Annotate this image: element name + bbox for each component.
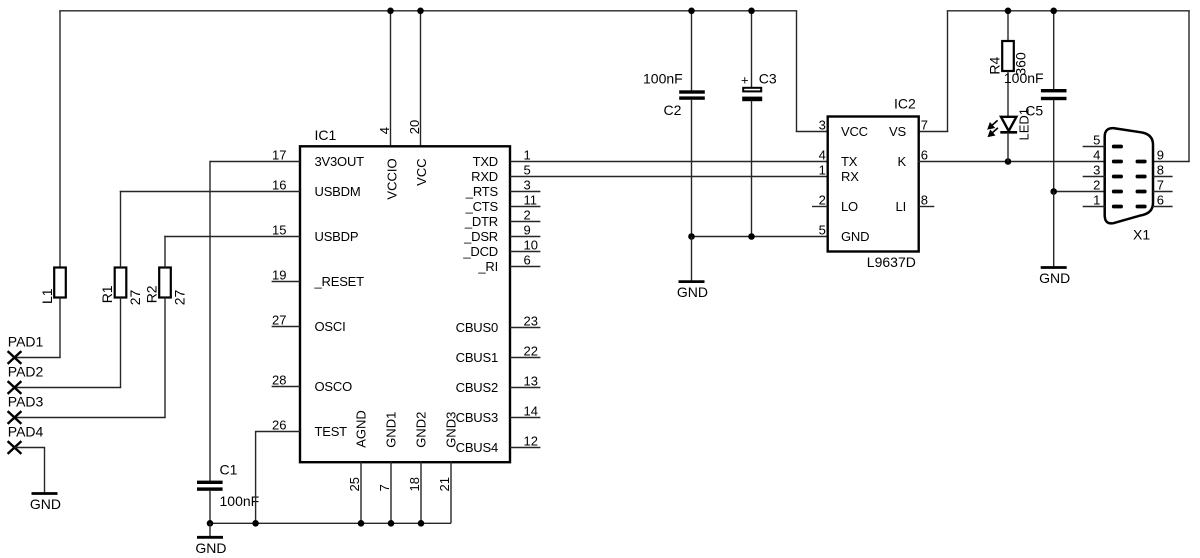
svg-text:X1: X1 [1133, 226, 1150, 242]
IC1 pin 3 _RTS stub [510, 191, 540, 193]
wire VS rail drop to R4 [1007, 11, 1009, 42]
svg-text:6: 6 [1157, 193, 1164, 208]
svg-text:13: 13 [524, 374, 538, 389]
diode LED1 cathode bar [1000, 131, 1017, 134]
wire R1 bottom to PAD2 [120, 298, 122, 388]
wire rail drop to IC1 VCCIO pin 4 [390, 11, 392, 147]
X1 pin 3 dash [1112, 175, 1123, 179]
junction ground rail/AGND [358, 520, 365, 527]
ground below C5 [1039, 268, 1070, 287]
wire IC2 K pin 6 to X1 pin 4 [918, 161, 1105, 163]
svg-text:PAD1: PAD1 [8, 334, 44, 350]
svg-text:5: 5 [819, 223, 826, 238]
svg-text:R2: R2 [144, 285, 160, 303]
wire C2 bottom to ground wire [691, 99, 693, 237]
svg-text:IC2: IC2 [894, 96, 916, 112]
svg-text:23: 23 [524, 314, 538, 329]
capacitor C3 top plate [743, 88, 761, 92]
X1 pin 3 stub [1083, 176, 1105, 178]
svg-text:PAD2: PAD2 [8, 364, 44, 380]
wire L1 bottom to PAD1 [59, 298, 61, 358]
svg-text:3: 3 [524, 178, 531, 193]
wire X1 pin 2 to C5/ground [1054, 191, 1105, 193]
svg-text:CBUS2: CBUS2 [456, 380, 498, 395]
junction ground rail/GND2 [418, 520, 425, 527]
svg-text:10: 10 [524, 238, 538, 253]
IC1 pin 6 _RI stub [510, 266, 540, 268]
wire LED1 cathode to K wire [1007, 132, 1009, 161]
svg-text:21: 21 [437, 477, 452, 491]
IC1 pin 9 _DSR stub [510, 236, 540, 238]
svg-text:2: 2 [1093, 178, 1100, 193]
IC1 pin 22 CBUS1 stub [510, 357, 540, 359]
svg-text:CBUS1: CBUS1 [456, 350, 498, 365]
op IC2 L9637D box [828, 117, 919, 252]
svg-text:RX: RX [841, 169, 859, 184]
resistor R4 body [1002, 41, 1014, 71]
svg-text:4: 4 [1093, 148, 1100, 163]
ground below PAD4 [30, 447, 61, 512]
junction rail/VCCIO [387, 8, 394, 15]
svg-text:8: 8 [921, 193, 928, 208]
svg-text:25: 25 [347, 477, 362, 491]
svg-text:3: 3 [1093, 163, 1100, 178]
capacitor C3 bottom plate [742, 97, 762, 102]
svg-text:USBDP: USBDP [315, 229, 359, 244]
wire rail drop to L1 [59, 11, 61, 268]
node PAD3 X mark [8, 411, 22, 424]
X1 pin 5 stub [1083, 146, 1105, 148]
node PAD1 X mark [8, 351, 22, 364]
svg-text:100nF: 100nF [643, 70, 683, 86]
op IC1 FT232R box [300, 146, 510, 462]
svg-text:L9637D: L9637D [867, 254, 916, 270]
svg-text:TEST: TEST [315, 424, 348, 439]
junction ground rail/C1 [207, 520, 214, 527]
svg-text:VCCIO: VCCIO [385, 158, 400, 199]
svg-text:1: 1 [1093, 193, 1100, 208]
capacitor C1 plates [197, 481, 223, 484]
svg-text:6: 6 [921, 148, 928, 163]
wire VS rail drop to IC2 VS pin 7 [947, 11, 949, 132]
svg-text:GND: GND [30, 496, 61, 512]
wire VS rail drop to C5 [1053, 11, 1055, 90]
IC1 pin 7 GND1 stub [390, 462, 392, 524]
svg-text:CBUS3: CBUS3 [456, 410, 498, 425]
svg-text:GND2: GND2 [414, 412, 429, 448]
svg-text:TXD: TXD [473, 154, 498, 169]
junction rail/C3 [748, 8, 755, 15]
IC1 pin 28 OSCO stub [272, 386, 300, 388]
ground below C2 [677, 237, 708, 301]
svg-text:IC1: IC1 [315, 127, 337, 143]
svg-text:17: 17 [272, 148, 286, 163]
svg-text:7: 7 [921, 118, 928, 133]
resistor R1 body [115, 268, 127, 298]
svg-text:28: 28 [272, 373, 286, 388]
junction C5/pin2 wire [1050, 188, 1057, 195]
inductor L1 body [54, 268, 66, 298]
svg-text:_RI: _RI [477, 259, 498, 274]
svg-text:27: 27 [127, 290, 143, 306]
svg-text:2: 2 [524, 208, 531, 223]
svg-text:VCC: VCC [414, 158, 429, 185]
svg-text:GND: GND [1039, 270, 1070, 286]
IC1 pin 13 CBUS2 stub [510, 387, 540, 389]
IC1 pin 2 _DTR stub [510, 221, 540, 223]
svg-text:12: 12 [524, 434, 538, 449]
svg-text:CBUS0: CBUS0 [456, 320, 498, 335]
svg-text:OSCO: OSCO [315, 379, 353, 394]
svg-text:RXD: RXD [471, 169, 498, 184]
wire rail drop to IC1 VCC pin 20 [420, 11, 422, 147]
IC1 pin 18 GND2 stub [420, 462, 422, 524]
IC1 pin 10 _DCD stub [510, 251, 540, 253]
connector X1 body [1105, 128, 1153, 223]
svg-text:PAD4: PAD4 [8, 424, 44, 440]
svg-text:LI: LI [896, 199, 906, 214]
ground below C1 [195, 523, 226, 556]
wire IC1 RXD to IC2 RX [510, 176, 828, 178]
svg-text:USBDM: USBDM [315, 184, 361, 199]
node PAD2 X mark [8, 381, 22, 394]
svg-text:_DTR: _DTR [464, 214, 498, 229]
wire C1 bottom to ground rail [209, 491, 211, 524]
svg-text:3: 3 [819, 118, 826, 133]
svg-text:C2: C2 [664, 102, 682, 118]
wire VS rail drop to X1 pin 9 [1188, 11, 1190, 162]
X1 pin 1 dash [1112, 205, 1123, 209]
wire R4 bottom to LED1 [1007, 71, 1009, 117]
svg-text:GND: GND [195, 540, 226, 556]
svg-text:C5: C5 [1025, 102, 1043, 118]
X1 pin 5 dash [1112, 145, 1123, 149]
resistor R2 body [159, 268, 171, 298]
svg-text:K: K [898, 154, 907, 169]
junction rail/R4 [1005, 8, 1012, 15]
svg-text:TX: TX [841, 154, 858, 169]
junction ground wire/C2 [688, 233, 695, 240]
svg-text:OSCI: OSCI [315, 319, 346, 334]
wire TEST pin drop [256, 431, 300, 433]
svg-text:27: 27 [172, 290, 188, 306]
svg-text:16: 16 [272, 178, 286, 193]
wire rail drop to C2 [691, 11, 693, 91]
svg-text:GND: GND [677, 284, 708, 300]
wire C5 junction down to ground [1053, 192, 1055, 268]
X1 pin 6 stub [1153, 206, 1173, 208]
X1 pin 1 stub [1083, 206, 1105, 208]
svg-text:18: 18 [407, 477, 422, 491]
X1 pin 8 stub [1153, 176, 1173, 178]
junction rail/C2 [688, 8, 695, 15]
wire C5 bottom through K wire to X1 pin 2 row [1053, 99, 1055, 191]
svg-text:1: 1 [819, 163, 826, 178]
svg-text:6: 6 [524, 253, 531, 268]
IC1 pin 19 _RESET stub [272, 281, 300, 283]
svg-text:CBUS4: CBUS4 [456, 440, 498, 455]
svg-text:100nF: 100nF [1004, 70, 1044, 86]
IC2 pin 8 LI [919, 206, 935, 208]
svg-text:7: 7 [1157, 178, 1164, 193]
svg-text:_RESET: _RESET [314, 274, 365, 289]
wire bottom ground rail [210, 522, 451, 524]
svg-text:_RTS: _RTS [465, 184, 499, 199]
wire C3 bottom to ground wire [751, 101, 753, 237]
svg-text:5: 5 [1093, 133, 1100, 148]
IC1 pin 27 OSCI stub [272, 326, 300, 328]
svg-text:_DCD: _DCD [462, 244, 498, 259]
junction ground rail/TEST [252, 520, 259, 527]
wire R2 top to IC1 USBDP [164, 236, 166, 268]
svg-text:7: 7 [377, 484, 392, 491]
svg-text:_DSR: _DSR [463, 229, 498, 244]
diode LED1 emission arrows [988, 120, 998, 136]
junction rail/C5 [1050, 8, 1057, 15]
svg-text:9: 9 [524, 223, 531, 238]
X1 pin 6 dash [1136, 205, 1147, 209]
svg-text:L1: L1 [39, 288, 55, 304]
junction rail/VCC [417, 8, 424, 15]
svg-text:C3: C3 [759, 70, 777, 86]
svg-text:R1: R1 [99, 285, 115, 303]
svg-text:22: 22 [524, 344, 538, 359]
IC1 pin 11 _CTS stub [510, 206, 540, 208]
svg-text:20: 20 [407, 120, 422, 134]
svg-text:8: 8 [1157, 163, 1164, 178]
svg-text:LO: LO [841, 199, 858, 214]
wire top power rail left segment [59, 10, 797, 12]
wire IC1 3V3OUT to C1 [210, 161, 300, 163]
svg-text:5: 5 [524, 163, 531, 178]
svg-text:1: 1 [524, 148, 531, 163]
diode LED1 triangle [1001, 117, 1016, 131]
svg-text:+: + [741, 73, 749, 88]
wire C2/C3 ground to IC2 GND pin 5 [692, 236, 829, 238]
svg-text:100nF: 100nF [220, 493, 260, 509]
X1 pin 7 dash [1136, 190, 1147, 194]
svg-text:GND1: GND1 [384, 412, 399, 448]
X1 pin 4 dash [1112, 160, 1123, 164]
svg-text:11: 11 [524, 193, 538, 208]
IC1 pin 12 CBUS4 stub [510, 447, 540, 449]
X1 pin 8 dash [1136, 175, 1147, 179]
svg-text:_CTS: _CTS [465, 199, 499, 214]
svg-text:VS: VS [889, 124, 906, 139]
svg-text:GND3: GND3 [444, 412, 459, 448]
junction ground wire/C3 [748, 233, 755, 240]
svg-text:15: 15 [272, 223, 286, 238]
svg-text:VCC: VCC [841, 124, 868, 139]
junction K wire / LED1 [1005, 158, 1012, 165]
capacitor C5 plates [1041, 89, 1067, 92]
wire rail drop to C3 [751, 11, 753, 89]
svg-text:27: 27 [272, 313, 286, 328]
X1 pin 9 dash [1136, 160, 1147, 164]
wire R1 top to IC1 USBDM [120, 191, 122, 268]
svg-text:4: 4 [377, 127, 392, 134]
svg-text:AGND: AGND [354, 410, 369, 448]
IC2 pin 2 LO [812, 206, 828, 208]
wire rail drop to IC2 VCC pin 3 [796, 11, 798, 132]
IC1 pin 25 AGND stub [360, 462, 362, 524]
svg-text:9: 9 [1157, 148, 1164, 163]
wire top VS rail right segment [947, 10, 1190, 12]
X1 pin 7 stub [1153, 191, 1173, 193]
capacitor C2 plates [679, 90, 705, 93]
IC1 pin 14 CBUS3 stub [510, 417, 540, 419]
wire PAD4 to ground [15, 447, 45, 449]
svg-text:14: 14 [524, 404, 538, 419]
wire R2 bottom to PAD3 [164, 298, 166, 418]
IC1 pin 23 CBUS0 stub [510, 327, 540, 329]
svg-text:19: 19 [272, 268, 286, 283]
svg-text:4: 4 [819, 148, 826, 163]
junction ground rail/GND1 [388, 520, 395, 527]
X1 pin 2 dash [1112, 190, 1123, 194]
node PAD4 X mark [8, 441, 22, 454]
svg-text:PAD3: PAD3 [8, 394, 44, 410]
svg-text:GND: GND [841, 229, 869, 244]
svg-text:26: 26 [272, 418, 286, 433]
svg-text:R4: R4 [987, 56, 1003, 74]
IC1 pin 21 GND3 stub [450, 462, 452, 524]
svg-text:2: 2 [819, 193, 826, 208]
svg-text:C1: C1 [220, 462, 238, 478]
svg-text:3V3OUT: 3V3OUT [315, 154, 365, 169]
wire IC1 TXD to IC2 TX [510, 161, 828, 163]
